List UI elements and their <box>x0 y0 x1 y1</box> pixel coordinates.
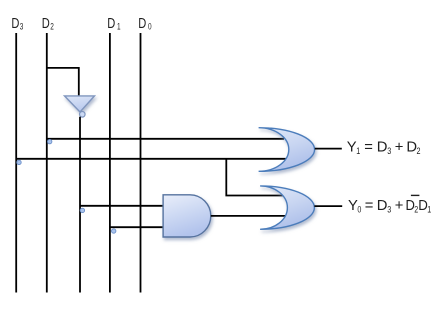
svg-text:D: D <box>138 15 146 32</box>
svg-text:3: 3 <box>387 146 391 156</box>
wire D2 to OR1 top input <box>47 138 284 140</box>
svg-text:2: 2 <box>50 21 54 31</box>
wire D1 to AND input B <box>110 226 164 228</box>
wire D3 to OR1 bottom input <box>16 158 286 160</box>
svg-text:3: 3 <box>387 204 391 214</box>
wire D2 branch to inverter input <box>47 68 79 96</box>
junction dot inverter-output/AND line <box>80 208 84 212</box>
wire OR2 output <box>314 205 342 207</box>
wire inverter output to AND input A <box>80 205 164 207</box>
OR gate U3 <box>259 128 315 172</box>
wire D1 vertical <box>109 33 111 293</box>
svg-text:1: 1 <box>356 146 360 156</box>
junction dot D2/OR1 line <box>48 139 52 143</box>
wire OR1 output <box>315 148 342 150</box>
label Y1 equation <box>347 140 421 157</box>
svg-text:D: D <box>406 140 417 156</box>
wire D0 vertical <box>140 33 142 293</box>
inverter U1 <box>65 96 95 112</box>
svg-text:=: = <box>365 198 374 214</box>
junction dot D1/AND line <box>112 229 116 233</box>
svg-text:0: 0 <box>357 204 361 214</box>
svg-text:D: D <box>42 15 50 32</box>
svg-text:2: 2 <box>417 146 421 156</box>
junction dot D3/OR1 line <box>17 160 21 164</box>
wire D3 branch elbow to OR2 top input <box>226 159 284 196</box>
svg-text:1: 1 <box>117 21 121 31</box>
label Y0 equation <box>348 195 431 214</box>
svg-text:Y: Y <box>347 140 357 156</box>
svg-text:D: D <box>377 140 388 156</box>
svg-text:=: = <box>364 140 373 156</box>
svg-text:3: 3 <box>20 21 24 31</box>
OR gate U4 <box>260 186 314 229</box>
AND gate U2 <box>163 195 211 237</box>
wire AND output to OR2 bottom input <box>211 215 286 217</box>
svg-text:0: 0 <box>148 21 152 31</box>
svg-text:+: + <box>395 140 404 156</box>
wire inverter output vertical <box>79 117 81 293</box>
svg-text:+: + <box>395 198 404 214</box>
svg-text:1: 1 <box>427 204 431 214</box>
svg-text:D: D <box>107 15 115 32</box>
inverter U1 bubble <box>80 112 86 118</box>
wire D3 vertical <box>15 33 17 293</box>
svg-text:D: D <box>377 198 388 214</box>
wire D2 vertical <box>46 33 48 293</box>
svg-text:D: D <box>11 15 19 32</box>
